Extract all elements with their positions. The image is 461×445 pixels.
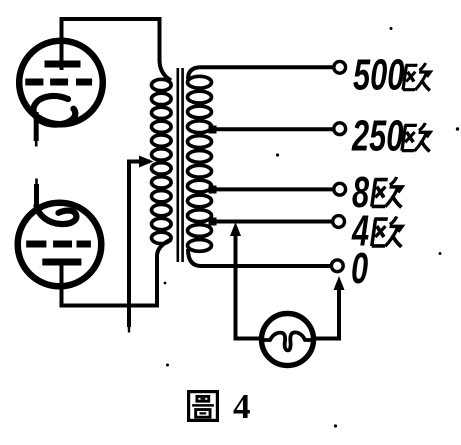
envelope V2 <box>18 203 102 287</box>
transformer T1 primary winding <box>152 79 172 243</box>
terminal: 4 ohm <box>333 216 345 228</box>
wire: secondary top to 500-ohm terminal <box>188 67 333 79</box>
wire: 4-ohm tap to terminal <box>211 220 332 224</box>
grid V1 <box>25 79 92 86</box>
terminal: 8 ohm <box>334 183 346 195</box>
wire: 8-ohm tap to terminal <box>211 187 333 191</box>
filament lead V1 <box>34 112 39 141</box>
lamp envelope <box>262 314 314 366</box>
wire: secondary bottom to 0 terminal <box>188 249 331 266</box>
wire: V1 plate lead to transformer primary top <box>62 19 172 81</box>
triode V1 <box>19 41 103 147</box>
wire: 250-ohm tap to terminal <box>211 127 333 131</box>
junction: 250-ohm tap <box>209 126 217 134</box>
plate V2 <box>42 259 81 266</box>
terminal: 250 ohm <box>334 123 346 135</box>
svg-text:4: 4 <box>233 387 251 426</box>
envelope V1 <box>19 41 103 125</box>
filament V1 <box>33 96 75 125</box>
svg-text:0: 0 <box>351 245 368 294</box>
wire: primary center tap (B+) with arrow <box>129 156 154 333</box>
filament lead V2 <box>34 184 39 209</box>
wire: lamp to 0 terminal (arrow up) <box>314 276 345 339</box>
label: 250 ohm <box>351 112 434 161</box>
transformer T1 secondary winding <box>188 76 212 251</box>
plate V1 <box>45 61 81 68</box>
svg-text:250: 250 <box>351 112 403 161</box>
label: caption 圖 <box>189 392 218 421</box>
wire: 4-ohm tap down to lamp (arrow up) <box>230 222 260 339</box>
triode V2 <box>18 179 102 287</box>
junction: 8-ohm tap <box>209 186 217 194</box>
filament V2 <box>37 206 77 224</box>
junction: 4-ohm tap <box>209 218 217 226</box>
lamp filament <box>261 332 315 350</box>
label: 500 ohm <box>353 51 434 100</box>
grid V2 <box>26 241 91 248</box>
terminal: 500 ohm <box>334 61 346 73</box>
label: 4 ohm <box>351 207 405 256</box>
terminal: 0 <box>331 260 343 272</box>
wire: V2 plate to transformer primary bottom <box>62 240 172 306</box>
lamp DS1 <box>261 314 315 366</box>
label: 8 ohm <box>352 169 406 218</box>
svg-text:500: 500 <box>353 51 404 100</box>
transformer T1 core <box>178 68 183 262</box>
